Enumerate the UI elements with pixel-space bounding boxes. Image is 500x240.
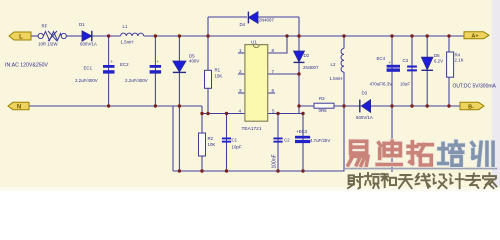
svg-text:2: 2 xyxy=(239,69,242,74)
svg-text:6.2V: 6.2V xyxy=(434,58,443,63)
svg-text:D2: D2 xyxy=(304,53,310,58)
svg-text:EC4: EC4 xyxy=(377,56,386,61)
svg-text:C2: C2 xyxy=(284,137,290,142)
svg-text:2N4007: 2N4007 xyxy=(303,65,319,70)
svg-text:2N4007: 2N4007 xyxy=(259,18,275,23)
svg-text:C3: C3 xyxy=(403,58,409,63)
svg-text:L1: L1 xyxy=(123,24,128,29)
svg-text:15K: 15K xyxy=(215,74,223,79)
svg-text:+: + xyxy=(157,59,160,64)
svg-text:RF: RF xyxy=(42,24,48,29)
svg-text:1: 1 xyxy=(239,48,242,53)
svg-text:IN:AC 120V&250V: IN:AC 120V&250V xyxy=(5,63,49,69)
svg-text:3: 3 xyxy=(239,88,242,93)
svg-text:4.7uF/25V: 4.7uF/25V xyxy=(310,138,330,143)
svg-text:R3: R3 xyxy=(319,96,325,101)
svg-text:OUT:DC 5V/300mA: OUT:DC 5V/300mA xyxy=(453,83,497,89)
svg-text:4: 4 xyxy=(239,108,242,113)
svg-text:L: L xyxy=(19,34,23,40)
svg-text:10uF: 10uF xyxy=(400,82,410,87)
svg-text:+: + xyxy=(389,60,392,65)
svg-text:1.5mH: 1.5mH xyxy=(121,40,134,45)
svg-text:100nF: 100nF xyxy=(272,154,278,168)
svg-text:400V: 400V xyxy=(189,59,199,64)
svg-text:TEA1721: TEA1721 xyxy=(242,126,262,132)
svg-text:8: 8 xyxy=(272,48,275,53)
svg-text:D3: D3 xyxy=(362,91,368,96)
svg-text:+EC3: +EC3 xyxy=(296,129,308,134)
svg-text:5: 5 xyxy=(272,108,275,113)
svg-text:D1: D1 xyxy=(79,22,85,27)
svg-text:L2: L2 xyxy=(331,62,336,67)
svg-text:C1: C1 xyxy=(232,137,238,142)
svg-text:R1: R1 xyxy=(215,68,221,73)
svg-text:B-: B- xyxy=(468,104,474,110)
svg-text:2.1K: 2.1K xyxy=(455,58,464,63)
svg-text:470uF/6.3V: 470uF/6.3V xyxy=(370,82,393,87)
svg-text:N: N xyxy=(17,104,21,110)
svg-text:2.2uF/400V: 2.2uF/400V xyxy=(125,78,148,83)
svg-text:10pF: 10pF xyxy=(232,145,242,150)
svg-text:D4: D4 xyxy=(240,22,246,27)
svg-text:7: 7 xyxy=(272,69,275,74)
svg-text:10K: 10K xyxy=(208,142,216,147)
svg-text:EC1: EC1 xyxy=(84,66,93,71)
svg-text:A+: A+ xyxy=(471,34,478,40)
svg-text:6: 6 xyxy=(272,88,275,93)
svg-text:+: + xyxy=(111,59,114,64)
svg-text:R2: R2 xyxy=(208,136,214,141)
svg-text:1.5mH: 1.5mH xyxy=(330,76,343,81)
svg-text:600V/1A: 600V/1A xyxy=(356,115,373,120)
svg-text:2.2uF/400V: 2.2uF/400V xyxy=(75,78,98,83)
svg-text:U1: U1 xyxy=(251,40,257,45)
svg-text:600V/1A: 600V/1A xyxy=(80,42,97,47)
svg-text:EC2: EC2 xyxy=(120,62,129,67)
svg-text:0R6: 0R6 xyxy=(319,108,328,113)
svg-text:D6: D6 xyxy=(434,53,440,58)
svg-text:10R 1/2W: 10R 1/2W xyxy=(38,42,58,47)
